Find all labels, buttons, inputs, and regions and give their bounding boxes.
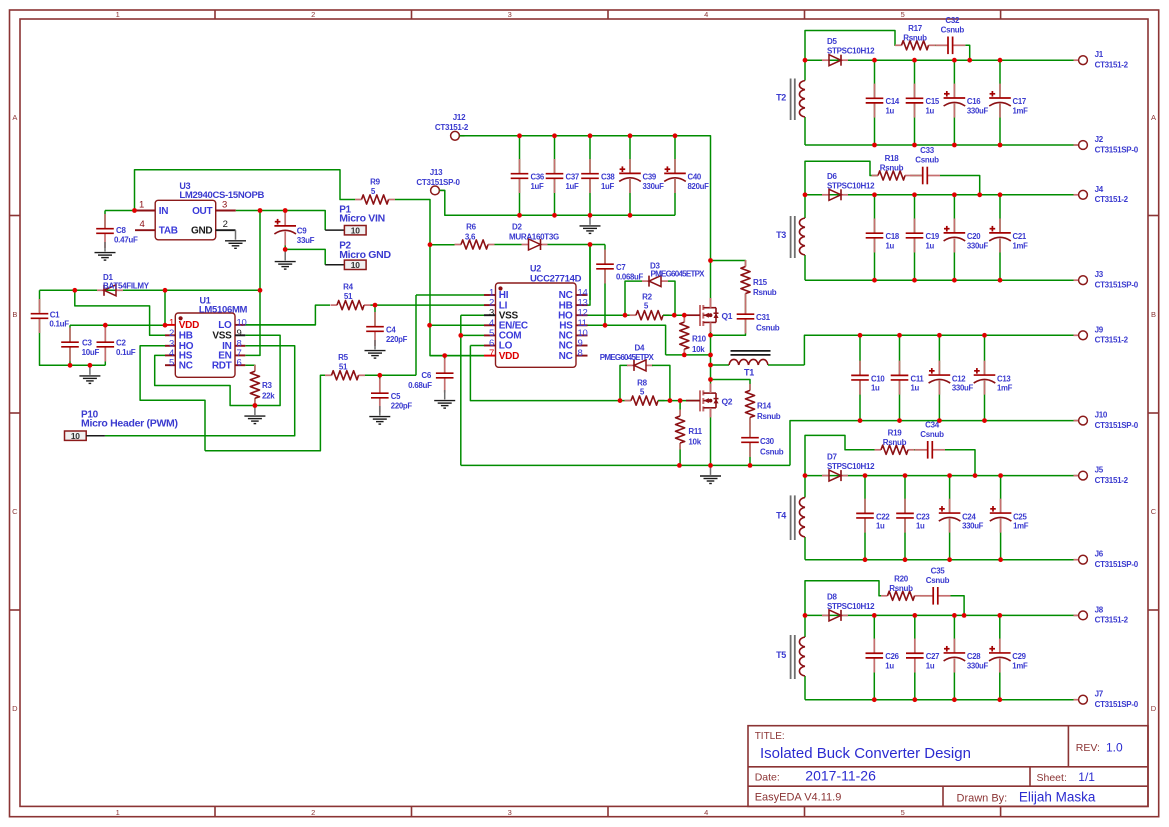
svg-text:33uF: 33uF bbox=[297, 236, 315, 245]
svg-text:2017-11-26: 2017-11-26 bbox=[805, 768, 876, 784]
svg-text:J5: J5 bbox=[1095, 466, 1104, 475]
svg-text:C29: C29 bbox=[1012, 652, 1026, 661]
svg-text:330uF: 330uF bbox=[962, 521, 984, 530]
svg-text:J3: J3 bbox=[1095, 270, 1104, 279]
svg-text:T2: T2 bbox=[776, 92, 786, 102]
svg-text:10k: 10k bbox=[692, 345, 705, 354]
svg-text:R19: R19 bbox=[888, 428, 903, 437]
svg-text:330uF: 330uF bbox=[967, 106, 989, 115]
svg-text:1u: 1u bbox=[885, 661, 894, 670]
svg-text:C5: C5 bbox=[391, 392, 401, 401]
svg-text:5: 5 bbox=[640, 388, 645, 397]
svg-text:3: 3 bbox=[508, 808, 512, 817]
svg-text:10: 10 bbox=[351, 226, 360, 236]
svg-text:1: 1 bbox=[116, 10, 120, 19]
svg-text:1u: 1u bbox=[916, 521, 925, 530]
svg-text:NC: NC bbox=[559, 351, 573, 362]
svg-text:VDD: VDD bbox=[499, 351, 519, 362]
svg-text:C19: C19 bbox=[926, 232, 940, 241]
svg-text:HB: HB bbox=[179, 331, 193, 342]
svg-text:C40: C40 bbox=[688, 173, 702, 182]
svg-text:2: 2 bbox=[223, 219, 228, 230]
svg-text:1u: 1u bbox=[926, 661, 935, 670]
svg-text:1u: 1u bbox=[886, 106, 895, 115]
svg-text:1uF: 1uF bbox=[531, 182, 544, 191]
svg-text:Csnub: Csnub bbox=[926, 576, 950, 585]
svg-text:IN: IN bbox=[159, 206, 168, 217]
svg-text:0.1uF: 0.1uF bbox=[116, 348, 136, 357]
svg-text:Micro GND: Micro GND bbox=[339, 249, 391, 261]
svg-text:UCC27714D: UCC27714D bbox=[530, 274, 582, 285]
svg-text:C17: C17 bbox=[1013, 97, 1026, 106]
svg-text:Csnub: Csnub bbox=[941, 25, 965, 34]
svg-text:1mF: 1mF bbox=[997, 383, 1013, 392]
svg-text:1u: 1u bbox=[926, 106, 935, 115]
svg-text:U2: U2 bbox=[530, 264, 541, 274]
svg-text:CT3151SP-0: CT3151SP-0 bbox=[1095, 700, 1139, 709]
svg-text:C18: C18 bbox=[886, 232, 900, 241]
svg-text:D8: D8 bbox=[827, 592, 837, 601]
svg-text:TAB: TAB bbox=[159, 226, 178, 237]
svg-text:C33: C33 bbox=[920, 146, 935, 155]
svg-text:330uF: 330uF bbox=[643, 182, 665, 191]
svg-text:10k: 10k bbox=[688, 438, 701, 447]
svg-text:7: 7 bbox=[489, 348, 494, 359]
svg-text:R18: R18 bbox=[885, 154, 900, 163]
svg-text:A: A bbox=[12, 113, 17, 122]
svg-text:RDT: RDT bbox=[212, 361, 232, 372]
svg-text:T5: T5 bbox=[776, 650, 786, 660]
svg-text:R5: R5 bbox=[338, 353, 348, 362]
svg-text:0.068uF: 0.068uF bbox=[616, 272, 643, 281]
svg-text:VDD: VDD bbox=[179, 320, 199, 331]
svg-text:T4: T4 bbox=[776, 511, 786, 521]
svg-text:NC: NC bbox=[179, 361, 193, 372]
svg-text:R11: R11 bbox=[688, 427, 702, 436]
svg-text:Date:: Date: bbox=[755, 772, 780, 784]
svg-text:5: 5 bbox=[169, 358, 174, 369]
svg-text:CT3151SP-0: CT3151SP-0 bbox=[416, 178, 460, 187]
svg-text:J7: J7 bbox=[1095, 690, 1104, 699]
svg-text:1u: 1u bbox=[871, 383, 880, 392]
svg-text:330uF: 330uF bbox=[952, 383, 974, 392]
svg-text:LO: LO bbox=[218, 320, 232, 331]
svg-text:51: 51 bbox=[339, 363, 348, 372]
svg-text:Sheet:: Sheet: bbox=[1037, 772, 1067, 784]
svg-text:REV:: REV: bbox=[1076, 742, 1100, 754]
svg-text:R14: R14 bbox=[757, 402, 772, 411]
svg-text:Micro Header (PWM): Micro Header (PWM) bbox=[81, 418, 178, 430]
svg-text:4: 4 bbox=[704, 10, 708, 19]
svg-text:C35: C35 bbox=[931, 566, 946, 575]
svg-text:Q1: Q1 bbox=[722, 311, 733, 321]
svg-text:J8: J8 bbox=[1095, 605, 1104, 614]
svg-text:C26: C26 bbox=[885, 652, 899, 661]
svg-text:BAT54FILMY: BAT54FILMY bbox=[103, 281, 150, 290]
svg-text:C2: C2 bbox=[116, 339, 126, 348]
svg-text:Csnub: Csnub bbox=[756, 324, 780, 333]
svg-text:D2: D2 bbox=[512, 223, 522, 232]
svg-text:1u: 1u bbox=[911, 383, 920, 392]
svg-text:D: D bbox=[12, 704, 18, 713]
svg-text:B: B bbox=[12, 310, 17, 319]
svg-text:J6: J6 bbox=[1095, 550, 1104, 559]
svg-text:1.0: 1.0 bbox=[1106, 741, 1123, 755]
svg-text:Csnub: Csnub bbox=[915, 156, 939, 165]
svg-text:J2: J2 bbox=[1095, 135, 1104, 144]
svg-text:D4: D4 bbox=[635, 344, 645, 353]
svg-text:EasyEDA V4.11.9: EasyEDA V4.11.9 bbox=[755, 792, 842, 804]
svg-text:51: 51 bbox=[344, 292, 353, 301]
svg-text:5: 5 bbox=[901, 10, 905, 19]
svg-text:D5: D5 bbox=[827, 37, 837, 46]
svg-text:1mF: 1mF bbox=[1013, 241, 1029, 250]
svg-text:C1: C1 bbox=[50, 311, 60, 320]
svg-text:STPSC10H12: STPSC10H12 bbox=[827, 47, 875, 56]
svg-text:1: 1 bbox=[116, 808, 120, 817]
svg-text:1: 1 bbox=[139, 199, 144, 210]
svg-text:Rsnub: Rsnub bbox=[903, 33, 927, 42]
svg-text:Q2: Q2 bbox=[722, 396, 733, 406]
svg-text:3.6: 3.6 bbox=[465, 232, 476, 241]
svg-text:C23: C23 bbox=[916, 512, 930, 521]
svg-text:C14: C14 bbox=[886, 97, 900, 106]
svg-text:PMEG6045ETPX: PMEG6045ETPX bbox=[651, 270, 706, 279]
svg-text:2: 2 bbox=[311, 808, 315, 817]
svg-text:10: 10 bbox=[237, 317, 247, 328]
svg-text:C32: C32 bbox=[945, 16, 960, 25]
svg-text:STPSC10H12: STPSC10H12 bbox=[827, 602, 875, 611]
svg-text:C8: C8 bbox=[116, 226, 126, 235]
svg-text:C30: C30 bbox=[760, 437, 775, 446]
svg-text:Rsnub: Rsnub bbox=[757, 412, 781, 421]
svg-text:Isolated Buck Converter Design: Isolated Buck Converter Design bbox=[760, 745, 971, 762]
svg-text:R15: R15 bbox=[753, 278, 768, 287]
svg-text:C10: C10 bbox=[871, 374, 885, 383]
svg-text:C: C bbox=[1151, 507, 1157, 516]
svg-text:10: 10 bbox=[71, 431, 80, 441]
svg-text:C36: C36 bbox=[531, 173, 545, 182]
svg-text:CT3151SP-0: CT3151SP-0 bbox=[1095, 145, 1139, 154]
svg-text:5: 5 bbox=[644, 302, 649, 311]
svg-text:10: 10 bbox=[351, 260, 360, 270]
svg-text:R17: R17 bbox=[908, 24, 923, 33]
svg-text:R20: R20 bbox=[894, 574, 909, 583]
svg-text:1mF: 1mF bbox=[1013, 521, 1029, 530]
svg-text:PMEG6045ETPX: PMEG6045ETPX bbox=[600, 353, 655, 362]
svg-text:R6: R6 bbox=[466, 223, 476, 232]
svg-text:8: 8 bbox=[578, 348, 583, 359]
svg-text:C16: C16 bbox=[967, 97, 981, 106]
svg-text:2: 2 bbox=[169, 328, 174, 339]
svg-text:820uF: 820uF bbox=[688, 182, 710, 191]
svg-text:VSS: VSS bbox=[212, 331, 232, 342]
svg-text:TITLE:: TITLE: bbox=[755, 731, 785, 742]
svg-text:T3: T3 bbox=[776, 230, 786, 240]
svg-text:CT3151SP-0: CT3151SP-0 bbox=[1095, 421, 1139, 430]
svg-text:C6: C6 bbox=[421, 371, 431, 380]
svg-text:CT3151-2: CT3151-2 bbox=[1095, 61, 1129, 70]
svg-text:J13: J13 bbox=[430, 168, 443, 177]
svg-text:C9: C9 bbox=[297, 227, 307, 236]
svg-text:C39: C39 bbox=[643, 173, 657, 182]
svg-text:C22: C22 bbox=[876, 512, 890, 521]
svg-text:1u: 1u bbox=[876, 521, 885, 530]
svg-text:C31: C31 bbox=[756, 313, 771, 322]
svg-text:9: 9 bbox=[237, 328, 242, 339]
svg-text:22k: 22k bbox=[262, 392, 275, 401]
svg-text:C37: C37 bbox=[566, 173, 579, 182]
svg-text:Elijah Maska: Elijah Maska bbox=[1019, 790, 1096, 805]
svg-text:C25: C25 bbox=[1013, 512, 1027, 521]
svg-text:A: A bbox=[1151, 113, 1156, 122]
svg-text:CT3151-2: CT3151-2 bbox=[1095, 476, 1129, 485]
svg-text:0.47uF: 0.47uF bbox=[114, 236, 138, 245]
svg-text:1mF: 1mF bbox=[1012, 661, 1028, 670]
svg-text:R3: R3 bbox=[262, 381, 272, 390]
svg-text:C38: C38 bbox=[601, 173, 615, 182]
svg-text:C27: C27 bbox=[926, 652, 939, 661]
svg-text:CT3151SP-0: CT3151SP-0 bbox=[1095, 560, 1139, 569]
svg-text:Drawn By:: Drawn By: bbox=[957, 793, 1008, 805]
svg-text:3: 3 bbox=[508, 10, 512, 19]
svg-text:R9: R9 bbox=[370, 178, 380, 187]
svg-text:CT3151-2: CT3151-2 bbox=[435, 123, 469, 132]
svg-text:Rsnub: Rsnub bbox=[880, 164, 904, 173]
svg-text:330uF: 330uF bbox=[967, 241, 989, 250]
svg-text:Rsnub: Rsnub bbox=[883, 438, 907, 447]
svg-text:C4: C4 bbox=[386, 326, 396, 335]
svg-text:C28: C28 bbox=[967, 652, 981, 661]
svg-text:4: 4 bbox=[140, 219, 145, 230]
svg-text:1u: 1u bbox=[926, 241, 935, 250]
svg-text:6: 6 bbox=[237, 358, 242, 369]
svg-text:J4: J4 bbox=[1095, 185, 1104, 194]
svg-text:CT3151SP-0: CT3151SP-0 bbox=[1095, 281, 1139, 290]
svg-text:1uF: 1uF bbox=[566, 182, 579, 191]
svg-text:220pF: 220pF bbox=[386, 335, 408, 344]
svg-text:4: 4 bbox=[704, 808, 708, 817]
svg-text:J1: J1 bbox=[1095, 50, 1104, 59]
svg-text:CT3151-2: CT3151-2 bbox=[1095, 336, 1129, 345]
svg-text:0.68uF: 0.68uF bbox=[408, 381, 432, 390]
svg-text:STPSC10H12: STPSC10H12 bbox=[827, 181, 875, 190]
svg-text:J10: J10 bbox=[1095, 411, 1108, 420]
svg-text:OUT: OUT bbox=[192, 206, 212, 217]
svg-text:D6: D6 bbox=[827, 172, 837, 181]
svg-text:CT3151-2: CT3151-2 bbox=[1095, 195, 1129, 204]
svg-text:C20: C20 bbox=[967, 232, 981, 241]
svg-text:Csnub: Csnub bbox=[760, 448, 784, 457]
svg-text:CT3151-2: CT3151-2 bbox=[1095, 616, 1129, 625]
svg-text:5: 5 bbox=[901, 808, 905, 817]
svg-text:330uF: 330uF bbox=[967, 661, 989, 670]
svg-text:Rsnub: Rsnub bbox=[753, 288, 777, 297]
svg-text:R2: R2 bbox=[642, 293, 652, 302]
svg-text:C3: C3 bbox=[82, 339, 92, 348]
svg-text:Micro VIN: Micro VIN bbox=[339, 213, 385, 225]
svg-text:C7: C7 bbox=[616, 263, 625, 272]
svg-text:C: C bbox=[12, 507, 18, 516]
svg-text:C12: C12 bbox=[952, 374, 966, 383]
svg-text:D: D bbox=[1151, 704, 1157, 713]
svg-text:J12: J12 bbox=[453, 113, 466, 122]
svg-text:3: 3 bbox=[222, 199, 227, 210]
svg-text:220pF: 220pF bbox=[391, 401, 413, 410]
svg-text:C13: C13 bbox=[997, 374, 1011, 383]
svg-text:C21: C21 bbox=[1013, 232, 1027, 241]
svg-text:C15: C15 bbox=[926, 97, 940, 106]
svg-text:1u: 1u bbox=[886, 241, 895, 250]
svg-text:Rsnub: Rsnub bbox=[889, 584, 913, 593]
svg-text:1uF: 1uF bbox=[601, 182, 614, 191]
svg-text:1mF: 1mF bbox=[1013, 106, 1029, 115]
svg-text:Csnub: Csnub bbox=[920, 430, 944, 439]
svg-text:1/1: 1/1 bbox=[1078, 770, 1095, 784]
svg-text:5: 5 bbox=[371, 187, 376, 196]
svg-text:C11: C11 bbox=[911, 374, 925, 383]
svg-text:B: B bbox=[1151, 310, 1156, 319]
svg-text:2: 2 bbox=[311, 10, 315, 19]
svg-text:R10: R10 bbox=[692, 335, 707, 344]
svg-text:STPSC10H12: STPSC10H12 bbox=[827, 462, 875, 471]
svg-text:MURA160T3G: MURA160T3G bbox=[509, 232, 559, 241]
svg-text:0.1uF: 0.1uF bbox=[49, 319, 69, 328]
svg-text:J9: J9 bbox=[1095, 325, 1104, 334]
svg-text:R4: R4 bbox=[343, 283, 353, 292]
svg-text:LM5106MM: LM5106MM bbox=[199, 305, 248, 316]
svg-text:1: 1 bbox=[169, 317, 174, 328]
svg-text:R8: R8 bbox=[637, 379, 647, 388]
svg-text:GND: GND bbox=[191, 226, 212, 237]
svg-text:C24: C24 bbox=[962, 512, 976, 521]
svg-text:T1: T1 bbox=[744, 368, 754, 378]
svg-text:10uF: 10uF bbox=[82, 348, 100, 357]
svg-text:D7: D7 bbox=[827, 453, 837, 462]
